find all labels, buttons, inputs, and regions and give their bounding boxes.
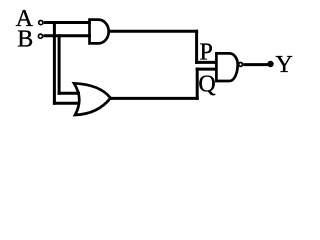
input terminal B: [38, 34, 42, 38]
wire A branch horizontal into OR lower input: [53, 102, 80, 105]
wire OR output vertical up to Q: [196, 68, 199, 100]
svg-text:Q: Q: [198, 72, 215, 98]
wire B branch horizontal into OR upper input: [58, 92, 80, 95]
wire A branch vertical to OR: [53, 21, 56, 105]
NAND output bubble: [239, 62, 243, 66]
svg-text:P: P: [200, 39, 213, 65]
input terminal A: [39, 21, 43, 25]
OR gate: [74, 83, 111, 115]
output node dot Y: [267, 61, 273, 67]
wire P stub into NAND: [195, 61, 216, 64]
AND gate: [90, 20, 109, 44]
wire A horizontal: [44, 21, 91, 24]
wire B horizontal: [43, 34, 91, 37]
wire AND output vertical down to P: [195, 30, 198, 64]
wire B branch vertical to OR: [58, 34, 61, 95]
wire NAND output to Y: [243, 63, 268, 66]
wire Q stub into NAND: [196, 68, 217, 71]
svg-text:Y: Y: [276, 52, 293, 78]
NAND gate U3: [216, 53, 237, 81]
wire OR output: [110, 97, 199, 100]
wire AND output: [109, 30, 198, 33]
svg-text:B: B: [17, 26, 33, 52]
